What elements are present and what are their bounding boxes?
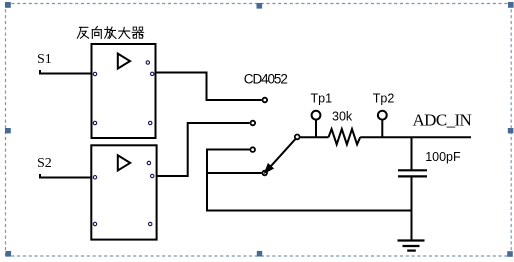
svg-text:100pF: 100pF xyxy=(425,150,461,164)
svg-text:S2: S2 xyxy=(37,156,52,171)
svg-text:ADC_IN: ADC_IN xyxy=(413,111,472,130)
svg-text:CD4052: CD4052 xyxy=(244,71,288,86)
char 大 xyxy=(119,27,130,38)
U1 pin o left input xyxy=(93,72,96,75)
selection handle top-mid xyxy=(257,3,263,9)
U1 pin o right bottom xyxy=(149,121,152,124)
char 放 xyxy=(105,27,116,39)
wire S1 input lead xyxy=(39,70,92,75)
capacitor C1 bottom plate xyxy=(398,175,427,177)
char 反 xyxy=(77,27,88,38)
char 向 xyxy=(92,27,101,39)
selection handle left-mid xyxy=(5,128,11,133)
svg-text:Tp1: Tp1 xyxy=(311,92,333,106)
U2 pin o left bottom xyxy=(93,222,96,225)
selection handle bottom-mid xyxy=(257,251,262,257)
wire Tp1 stem xyxy=(315,120,317,137)
U2 pin o right top xyxy=(147,161,150,164)
svg-text:Tp2: Tp2 xyxy=(373,92,395,106)
wire U1 output to mux contact 1 xyxy=(156,73,262,101)
op-amp U2 box xyxy=(91,145,156,239)
U1 pin o right top xyxy=(146,61,149,64)
mux wiper common terminal xyxy=(295,135,300,140)
svg-text:30k: 30k xyxy=(332,110,353,124)
mux contact terminal 1 xyxy=(263,98,268,103)
resistor R1 30k zigzag xyxy=(329,129,361,144)
ground symbol xyxy=(398,241,425,251)
selection handle top-right xyxy=(508,2,514,8)
U2 pin o right output xyxy=(151,174,154,177)
wire bottom return to capacitor/ground xyxy=(206,210,412,212)
selection handle right-mid xyxy=(508,128,514,133)
wire capacitor top lead xyxy=(411,137,413,169)
op-amp U2 triangle xyxy=(118,155,130,170)
test point Tp2 circle xyxy=(378,111,387,120)
U2 pin o left input xyxy=(93,176,96,179)
capacitor C1 top plate xyxy=(398,169,427,171)
wire capacitor bottom lead xyxy=(411,177,413,240)
selection handle bottom-right xyxy=(507,251,513,257)
U1 pin o left bottom xyxy=(93,121,96,124)
selection handle top-left xyxy=(5,2,11,8)
wire stub to contact 3 xyxy=(206,149,250,151)
mux wiper arm xyxy=(271,139,296,167)
U1 pin o right output xyxy=(151,72,154,75)
char 器 xyxy=(132,27,144,38)
selection handle bottom-left xyxy=(6,251,12,257)
wire common bus vertical xyxy=(206,149,208,211)
mux contact terminal 4 xyxy=(262,171,267,176)
wire Tp2 stem xyxy=(381,120,383,137)
svg-text:S1: S1 xyxy=(37,52,52,67)
op-amp U1 triangle xyxy=(118,54,130,69)
wire U2 output to mux contact 2 xyxy=(157,123,250,176)
U2 pin o right bottom xyxy=(149,222,152,225)
mux wiper arrowhead xyxy=(265,164,273,172)
wire stub to contact 4 xyxy=(206,172,262,174)
mux contact terminal 3 xyxy=(250,147,255,152)
title 反向放大器 (drawn glyphs) xyxy=(77,27,143,39)
wire main node right segment xyxy=(360,136,471,138)
mux contact terminal 2 xyxy=(251,121,256,126)
wire main node left segment xyxy=(300,136,329,138)
op-amp U1 box xyxy=(92,44,156,138)
test point Tp1 circle xyxy=(312,111,321,120)
wire S2 input lead xyxy=(39,174,92,179)
